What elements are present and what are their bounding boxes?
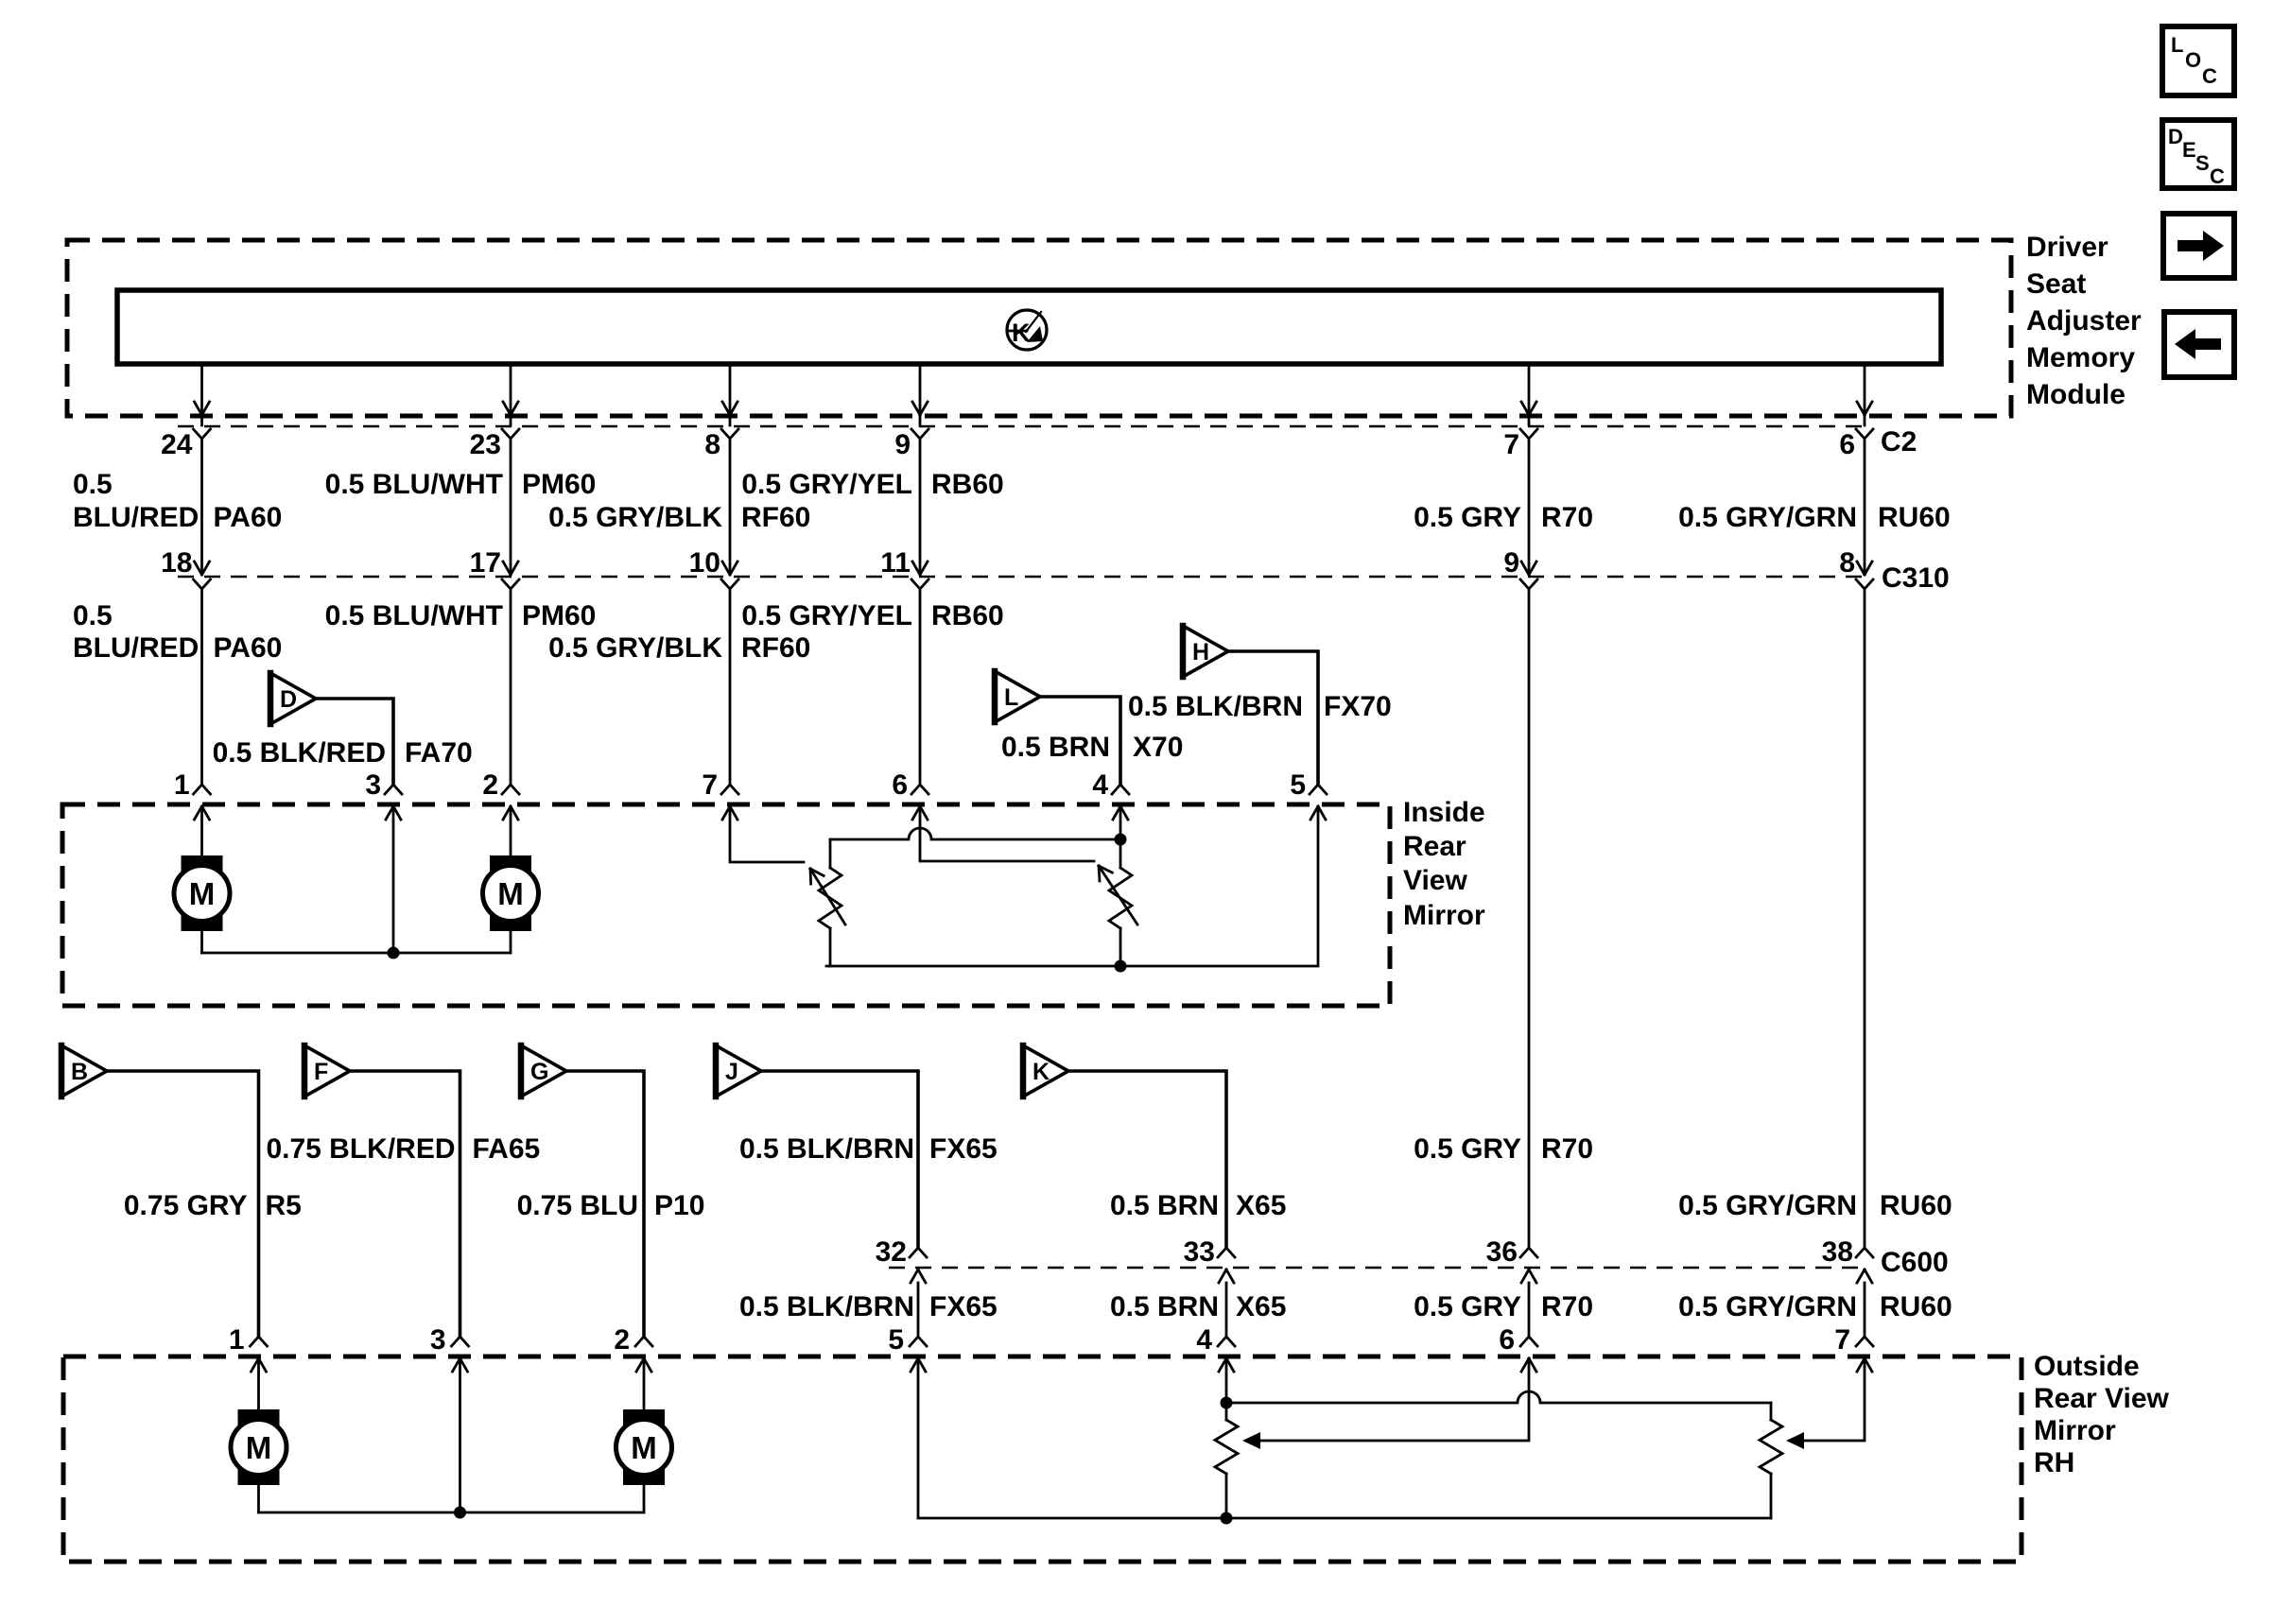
svg-text:R70: R70 bbox=[1541, 1133, 1593, 1165]
connector C2 bbox=[178, 425, 1865, 427]
motor M4 horizontal bbox=[616, 1359, 672, 1512]
svg-text:0.5 GRY: 0.5 GRY bbox=[1414, 502, 1521, 533]
svg-text:0.5 GRY/GRN: 0.5 GRY/GRN bbox=[1678, 1190, 1857, 1221]
wire pin7 wiper of P2 bbox=[1786, 1359, 1865, 1449]
wire PA60 C310 to mirror bbox=[200, 589, 203, 785]
wire outside motor rail bbox=[259, 1512, 645, 1514]
label 0.5 BLK/BRN FX65 (lower) bbox=[739, 1291, 998, 1322]
label 0.5 BLK/BRN FX65 (upper) bbox=[739, 1133, 998, 1165]
wire pin7 to wiper R1 bbox=[730, 807, 804, 862]
wire PM60 C310 to mirror bbox=[510, 589, 512, 785]
label 0.5 GRY/GRN RU60 (lower) bbox=[1678, 1291, 1952, 1322]
svg-text:38: 38 bbox=[1822, 1236, 1853, 1268]
DESC button bbox=[2162, 120, 2234, 188]
svg-text:0.75 BLU: 0.75 BLU bbox=[517, 1190, 638, 1221]
svg-text:0.5 GRY: 0.5 GRY bbox=[1414, 1133, 1521, 1165]
wire X65 from K bbox=[1068, 1071, 1226, 1248]
svg-text:E: E bbox=[2182, 138, 2196, 162]
label 0.75 BLK/RED FA65 bbox=[266, 1133, 540, 1165]
label 0.5 BRN X65 (lower) bbox=[1110, 1291, 1286, 1322]
svg-text:M: M bbox=[189, 876, 216, 911]
label 0.5 GRY/YEL RB60 (lower) bbox=[741, 600, 1003, 631]
pin 36 C600 bbox=[1486, 1236, 1537, 1283]
svg-text:G: G bbox=[530, 1059, 548, 1085]
svg-text:7: 7 bbox=[1503, 429, 1519, 460]
motor M2 horizontal bbox=[483, 807, 539, 953]
svg-text:3: 3 bbox=[365, 769, 381, 801]
label 0.5 BRN X70 bbox=[1001, 732, 1183, 763]
pin 1 inside mirror bbox=[174, 769, 211, 820]
svg-text:5: 5 bbox=[888, 1324, 904, 1356]
wire pin3 to rail bbox=[392, 807, 395, 953]
svg-text:0.5 BLU/WHT: 0.5 BLU/WHT bbox=[325, 469, 503, 500]
connector L bbox=[995, 671, 1040, 722]
svg-text:0.5 BLK/RED: 0.5 BLK/RED bbox=[213, 737, 386, 769]
svg-text:View: View bbox=[1403, 865, 1467, 896]
label 0.5 GRY/BLK RF60 (lower) bbox=[548, 632, 810, 664]
pin 18 C310 bbox=[161, 547, 210, 589]
svg-text:M: M bbox=[497, 876, 524, 911]
wire rheostat bottom rail bbox=[826, 807, 1318, 966]
pin 8 C2 bbox=[704, 429, 738, 460]
Inside Rear View Mirror box bbox=[62, 804, 1390, 1006]
wire P10 from G bbox=[566, 1071, 644, 1337]
pin 7 C2 bbox=[1503, 429, 1537, 460]
wire RU60 module output bbox=[1857, 364, 1872, 425]
label 0.5 GRY/GRN RU60 (mid) bbox=[1678, 1190, 1952, 1221]
svg-text:5: 5 bbox=[1290, 769, 1306, 801]
pin 6 inside mirror bbox=[892, 769, 928, 820]
pin 4 outside mirror bbox=[1196, 1324, 1235, 1372]
pin 9 C2 bbox=[894, 429, 928, 460]
svg-text:X65: X65 bbox=[1236, 1291, 1286, 1322]
svg-text:PM60: PM60 bbox=[522, 600, 596, 631]
wire FX70 from H bbox=[1228, 651, 1318, 785]
connector C310 bbox=[178, 576, 1865, 578]
node C600 label bbox=[1881, 1247, 1949, 1278]
svg-text:Outside: Outside bbox=[2034, 1351, 2140, 1382]
svg-text:Module: Module bbox=[2026, 379, 2126, 410]
label 0.5 BLU/WHT PM60 (upper) bbox=[325, 469, 597, 500]
svg-text:6: 6 bbox=[1499, 1324, 1515, 1356]
svg-text:Driver: Driver bbox=[2026, 232, 2108, 263]
connector C600 bbox=[889, 1267, 1865, 1269]
svg-text:6: 6 bbox=[1839, 429, 1855, 460]
svg-text:H: H bbox=[1192, 639, 1209, 665]
svg-text:FA70: FA70 bbox=[405, 737, 473, 769]
svg-text:0.5 BLK/BRN: 0.5 BLK/BRN bbox=[739, 1133, 914, 1165]
svg-text:4: 4 bbox=[1092, 769, 1108, 801]
connector J bbox=[716, 1045, 761, 1097]
svg-text:RB60: RB60 bbox=[931, 469, 1004, 500]
pin 7 inside mirror bbox=[702, 769, 738, 820]
wire RB60 C310 to mirror bbox=[919, 589, 922, 785]
pin 2 inside mirror bbox=[482, 769, 519, 820]
label 0.5 GRY R70 (lower) bbox=[1414, 1291, 1593, 1322]
svg-text:FX65: FX65 bbox=[929, 1291, 998, 1322]
wire RF60 module output bbox=[722, 364, 737, 425]
pin 11 C310 bbox=[880, 547, 928, 589]
svg-text:0.5 GRY/BLK: 0.5 GRY/BLK bbox=[548, 502, 722, 533]
svg-text:0.5: 0.5 bbox=[73, 600, 113, 631]
svg-text:Mirror: Mirror bbox=[2034, 1415, 2116, 1446]
Outside Rear View Mirror RH box bbox=[63, 1356, 2021, 1562]
svg-text:0.5 BRN: 0.5 BRN bbox=[1110, 1190, 1219, 1221]
wire FA65 from F bbox=[350, 1071, 460, 1337]
label 0.5 GRY R70 (upper) bbox=[1414, 502, 1593, 533]
motor M1 vertical bbox=[174, 807, 230, 953]
wire PM60 module output bbox=[503, 364, 518, 425]
svg-text:0.5 BRN: 0.5 BRN bbox=[1001, 732, 1110, 763]
junction P1 top bbox=[1221, 1397, 1233, 1409]
svg-text:RH: RH bbox=[2034, 1447, 2074, 1478]
wire R70 module output bbox=[1521, 364, 1536, 425]
wire motor common rail bbox=[202, 952, 512, 955]
connector D bbox=[270, 673, 316, 724]
wire X70 from L bbox=[1040, 697, 1120, 785]
node C310 label bbox=[1882, 562, 1950, 594]
svg-text:0.5 BLK/BRN: 0.5 BLK/BRN bbox=[1128, 691, 1303, 722]
svg-text:J: J bbox=[725, 1059, 738, 1085]
wire FX65 C600 to mirror bbox=[917, 1283, 920, 1337]
rheostat R1 bbox=[810, 839, 845, 966]
svg-text:7: 7 bbox=[702, 769, 718, 801]
wire pin6 to wiper R2 bbox=[920, 807, 1094, 861]
pin 1 outside mirror bbox=[229, 1324, 268, 1372]
svg-text:RF60: RF60 bbox=[741, 502, 810, 533]
label 0.5 GRY/BLK RF60 (upper) bbox=[548, 502, 810, 533]
svg-text:K: K bbox=[1032, 1059, 1050, 1085]
svg-text:24: 24 bbox=[161, 429, 193, 460]
pin 3 inside mirror bbox=[365, 769, 402, 820]
wire pin5 to pot bottom rail bbox=[918, 1359, 1771, 1518]
label 0.5 GRY/YEL RB60 (upper) bbox=[741, 469, 1003, 500]
svg-text:B: B bbox=[71, 1059, 88, 1085]
label 0.5 BLU/RED PA60 (upper) bbox=[73, 469, 282, 533]
circled K symbol bbox=[1007, 310, 1047, 350]
junction outside rail/pin3 bbox=[454, 1507, 466, 1519]
wire RU60 C2 to C310 bbox=[1864, 439, 1866, 571]
svg-text:S: S bbox=[2195, 151, 2210, 175]
pin 6 outside mirror bbox=[1499, 1324, 1537, 1372]
connector H bbox=[1183, 626, 1228, 677]
module box label bbox=[2026, 232, 2142, 410]
pin 38 C600 bbox=[1822, 1236, 1873, 1283]
svg-text:L: L bbox=[1004, 684, 1018, 711]
label 0.5 BLK/BRN FX70 bbox=[1128, 691, 1392, 722]
svg-text:0.5 BLK/BRN: 0.5 BLK/BRN bbox=[739, 1291, 914, 1322]
pin 4 inside mirror bbox=[1092, 769, 1129, 820]
svg-text:10: 10 bbox=[689, 547, 720, 579]
svg-text:0.5 BLU/WHT: 0.5 BLU/WHT bbox=[325, 600, 503, 631]
connector K bbox=[1023, 1045, 1068, 1097]
svg-text:K: K bbox=[1012, 319, 1031, 347]
svg-text:X70: X70 bbox=[1133, 732, 1183, 763]
inside mirror label bbox=[1403, 797, 1485, 931]
svg-text:32: 32 bbox=[876, 1236, 907, 1268]
label 0.5 BLU/WHT PM60 (lower) bbox=[325, 600, 597, 631]
svg-text:0.75 GRY: 0.75 GRY bbox=[124, 1190, 248, 1221]
svg-text:4: 4 bbox=[1196, 1324, 1212, 1356]
wire RF60 C2 to C310 bbox=[729, 439, 732, 571]
wire R5 from B bbox=[107, 1071, 259, 1337]
svg-text:Adjuster: Adjuster bbox=[2026, 305, 2142, 337]
svg-text:M: M bbox=[631, 1430, 657, 1465]
wire FX65 from J bbox=[761, 1071, 918, 1248]
svg-text:R70: R70 bbox=[1541, 1291, 1593, 1322]
wire pin6 wiper of P1 bbox=[1242, 1359, 1529, 1449]
svg-text:RU60: RU60 bbox=[1878, 502, 1951, 533]
svg-text:Mirror: Mirror bbox=[1403, 900, 1485, 931]
svg-text:0.5 GRY: 0.5 GRY bbox=[1414, 1291, 1521, 1322]
svg-text:0.5 GRY/YEL: 0.5 GRY/YEL bbox=[741, 469, 912, 500]
svg-text:1: 1 bbox=[174, 769, 190, 801]
svg-text:0.5 GRY/GRN: 0.5 GRY/GRN bbox=[1678, 502, 1857, 533]
svg-text:9: 9 bbox=[894, 429, 911, 460]
svg-text:0.5 BRN: 0.5 BRN bbox=[1110, 1291, 1219, 1322]
wire PA60 module output bbox=[195, 364, 210, 425]
rheostat R2 bbox=[1099, 807, 1137, 966]
potentiometer P1 bbox=[1215, 1403, 1238, 1518]
junction P1 bottom bbox=[1221, 1512, 1233, 1525]
wire R70 C310 to C600 bbox=[1528, 589, 1531, 1248]
Driver Seat Adjuster Memory Module box bbox=[67, 240, 2011, 416]
pin 3 outside mirror bbox=[430, 1324, 469, 1372]
wire RF60 C310 to mirror bbox=[729, 589, 732, 785]
svg-text:3: 3 bbox=[430, 1324, 446, 1356]
motor M3 vertical bbox=[231, 1359, 286, 1512]
svg-text:BLU/RED: BLU/RED bbox=[73, 502, 199, 533]
svg-text:C600: C600 bbox=[1881, 1247, 1949, 1278]
svg-text:L: L bbox=[2171, 33, 2183, 57]
label 0.5 GRY/GRN RU60 (upper) bbox=[1678, 502, 1951, 533]
outside mirror label bbox=[2034, 1351, 2170, 1478]
pin 10 C310 bbox=[689, 547, 738, 589]
pin 7 outside mirror bbox=[1834, 1324, 1873, 1372]
junction R2 bottom bbox=[1115, 960, 1127, 973]
svg-text:8: 8 bbox=[1839, 547, 1855, 579]
svg-text:BLU/RED: BLU/RED bbox=[73, 632, 199, 664]
svg-text:F: F bbox=[314, 1059, 328, 1085]
svg-text:0.5: 0.5 bbox=[73, 469, 113, 500]
wire RB60 module output bbox=[912, 364, 928, 425]
pin 24 C2 bbox=[161, 429, 210, 460]
svg-text:PA60: PA60 bbox=[214, 632, 283, 664]
svg-text:0.75 BLK/RED: 0.75 BLK/RED bbox=[266, 1133, 455, 1165]
svg-text:Inside: Inside bbox=[1403, 797, 1485, 828]
pin 17 C310 bbox=[470, 547, 519, 589]
label 0.5 BLK/RED FA70 bbox=[213, 737, 473, 769]
svg-text:RU60: RU60 bbox=[1880, 1190, 1952, 1221]
wire rheostat top link with crossover hump bbox=[830, 828, 1120, 839]
svg-text:RU60: RU60 bbox=[1880, 1291, 1952, 1322]
svg-text:9: 9 bbox=[1503, 547, 1519, 579]
svg-text:Seat: Seat bbox=[2026, 268, 2086, 300]
pin 5 outside mirror bbox=[888, 1324, 927, 1372]
label 0.5 BRN X65 (upper) bbox=[1110, 1190, 1286, 1221]
wire pin4 to pot P1 bbox=[1225, 1359, 1228, 1403]
node C2 label bbox=[1881, 426, 1917, 458]
svg-text:R70: R70 bbox=[1541, 502, 1593, 533]
svg-text:FX70: FX70 bbox=[1324, 691, 1392, 722]
pin 8 C310 bbox=[1839, 547, 1873, 589]
potentiometer P2 bbox=[1760, 1403, 1782, 1518]
svg-text:0.5 GRY/GRN: 0.5 GRY/GRN bbox=[1678, 1291, 1857, 1322]
wire R70 C600 to mirror bbox=[1528, 1283, 1531, 1337]
svg-text:C: C bbox=[2202, 64, 2217, 88]
wire RB60 C2 to C310 bbox=[919, 439, 922, 571]
wire X65 C600 to mirror bbox=[1225, 1283, 1228, 1337]
wire FA70 from D bbox=[316, 699, 393, 785]
svg-text:RB60: RB60 bbox=[931, 600, 1004, 631]
label 0.5 BLU/RED PA60 (lower) bbox=[73, 600, 282, 664]
svg-text:FA65: FA65 bbox=[473, 1133, 541, 1165]
wire PA60 C2 to C310 bbox=[200, 439, 203, 571]
wire RU60 C600 to mirror bbox=[1864, 1283, 1866, 1337]
svg-text:C2: C2 bbox=[1881, 426, 1917, 458]
svg-text:R5: R5 bbox=[266, 1190, 302, 1221]
svg-text:Rear: Rear bbox=[1403, 831, 1466, 862]
svg-text:2: 2 bbox=[482, 769, 498, 801]
svg-text:P10: P10 bbox=[654, 1190, 704, 1221]
wire PM60 C2 to C310 bbox=[510, 439, 512, 571]
svg-text:C310: C310 bbox=[1882, 562, 1950, 594]
svg-text:0.5 GRY/YEL: 0.5 GRY/YEL bbox=[741, 600, 912, 631]
pin 23 C2 bbox=[470, 429, 519, 460]
svg-text:PA60: PA60 bbox=[214, 502, 283, 533]
label 0.75 BLU P10 bbox=[517, 1190, 705, 1221]
svg-text:FX65: FX65 bbox=[929, 1133, 998, 1165]
wire RU60 C310 to C600 bbox=[1864, 589, 1866, 1248]
svg-text:Memory: Memory bbox=[2026, 342, 2135, 373]
svg-text:C: C bbox=[2210, 164, 2225, 188]
svg-text:O: O bbox=[2185, 48, 2201, 72]
pin 2 outside mirror bbox=[614, 1324, 652, 1372]
svg-text:M: M bbox=[246, 1430, 272, 1465]
back arrow button bbox=[2164, 312, 2234, 377]
junction rail/pin3 bbox=[388, 947, 400, 959]
svg-text:RF60: RF60 bbox=[741, 632, 810, 664]
pin 9 C310 bbox=[1503, 547, 1537, 589]
svg-text:Rear View: Rear View bbox=[2034, 1383, 2170, 1414]
pin 33 C600 bbox=[1184, 1236, 1235, 1283]
svg-text:17: 17 bbox=[470, 547, 501, 579]
svg-text:1: 1 bbox=[229, 1324, 245, 1356]
svg-text:33: 33 bbox=[1184, 1236, 1215, 1268]
svg-text:6: 6 bbox=[892, 769, 908, 801]
svg-text:X65: X65 bbox=[1236, 1190, 1286, 1221]
label 0.5 GRY R70 (mid) bbox=[1414, 1133, 1593, 1165]
pin 5 inside mirror bbox=[1290, 769, 1327, 820]
svg-text:36: 36 bbox=[1486, 1236, 1518, 1268]
svg-text:D: D bbox=[280, 686, 297, 713]
pin 6 C2 bbox=[1839, 429, 1873, 460]
svg-text:11: 11 bbox=[880, 547, 911, 579]
LOC button bbox=[2162, 26, 2234, 95]
junction R2 top bbox=[1115, 834, 1127, 846]
svg-text:18: 18 bbox=[161, 547, 192, 579]
svg-text:PM60: PM60 bbox=[522, 469, 596, 500]
svg-text:8: 8 bbox=[704, 429, 720, 460]
svg-text:D: D bbox=[2168, 125, 2183, 148]
label 0.75 GRY R5 bbox=[124, 1190, 302, 1221]
connector G bbox=[521, 1045, 566, 1097]
svg-text:23: 23 bbox=[470, 429, 501, 460]
svg-text:2: 2 bbox=[614, 1324, 630, 1356]
driver seat adjuster memory module U1 bbox=[117, 290, 1941, 364]
pin 32 C600 bbox=[876, 1236, 927, 1283]
wire pin3 outside to rail bbox=[459, 1359, 461, 1512]
forward arrow button bbox=[2163, 214, 2234, 278]
svg-text:7: 7 bbox=[1834, 1324, 1850, 1356]
connector F bbox=[304, 1045, 350, 1097]
connector B bbox=[61, 1045, 107, 1097]
wire pot top link with crossover hump bbox=[1226, 1391, 1771, 1403]
svg-text:0.5 GRY/BLK: 0.5 GRY/BLK bbox=[548, 632, 722, 664]
wire R70 C2 to C310 bbox=[1528, 439, 1531, 571]
